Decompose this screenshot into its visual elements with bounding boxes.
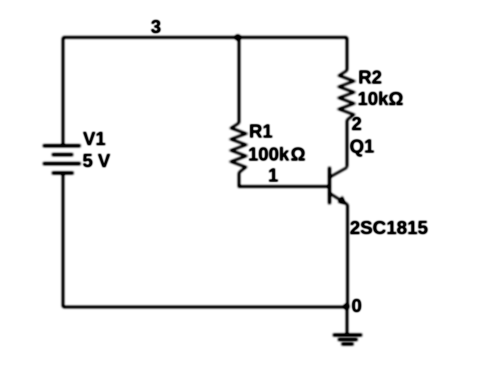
- wire: node 3 corner down to R2 top: [346, 37, 348, 70]
- wire: node 3 down to R1 top: [238, 37, 240, 123]
- ground symbol: [333, 307, 362, 344]
- svg-text:Ω: Ω: [389, 88, 404, 109]
- svg-text:R1: R1: [249, 121, 273, 142]
- wire: R2 bottom to collector, node 2: [346, 120, 348, 167]
- svg-text:1: 1: [268, 164, 278, 185]
- svg-text:10k: 10k: [358, 88, 390, 109]
- wire: top rail node 3 from left corner to right corner: [63, 36, 347, 38]
- svg-text:2: 2: [352, 113, 362, 134]
- resistor R1 zigzag: [231, 123, 245, 173]
- svg-text:Q1: Q1: [350, 136, 375, 157]
- svg-text:Ω: Ω: [291, 144, 306, 165]
- svg-text:100k: 100k: [248, 144, 290, 165]
- wire: left rail bottom, battery minus down to node 0: [62, 173, 64, 307]
- wire: bottom rail node 0: [63, 306, 347, 308]
- transistor Q1 body: [330, 167, 348, 205]
- svg-text:V1: V1: [83, 128, 106, 149]
- svg-text:5 V: 5 V: [83, 150, 111, 171]
- battery V1 plates: [43, 146, 81, 173]
- svg-text:0: 0: [352, 295, 362, 316]
- resistor R2 zigzag: [339, 71, 353, 121]
- junction dot node 3 at R1 tap: [235, 35, 241, 41]
- wire: left rail top, node 3 down to battery plus: [62, 37, 64, 146]
- svg-text:3: 3: [151, 16, 161, 37]
- junction dot node 0: [344, 304, 350, 310]
- wire: R1 bottom to transistor base, node 1: [239, 173, 330, 187]
- wire: emitter down to node 0: [347, 205, 349, 308]
- svg-text:2SC1815: 2SC1815: [350, 217, 428, 238]
- svg-text:R2: R2: [358, 67, 382, 88]
